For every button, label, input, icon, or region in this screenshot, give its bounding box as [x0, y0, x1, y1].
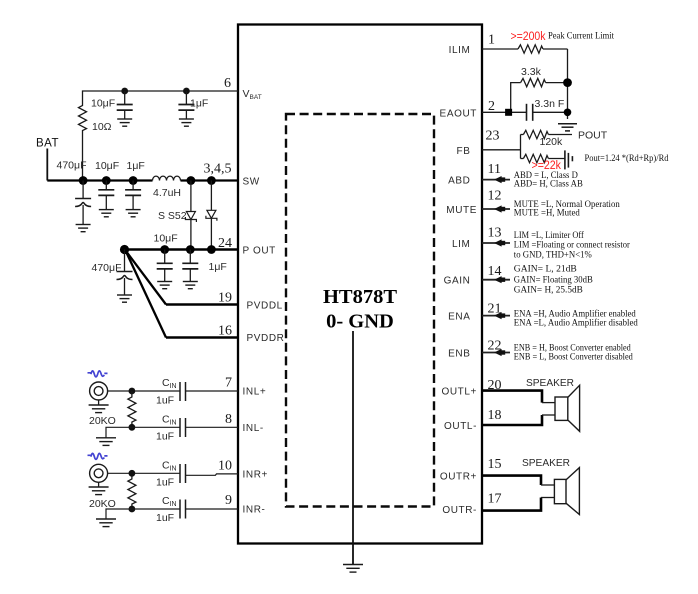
wire GND from IC center — [352, 331, 354, 564]
junction dot EAOUT rail — [564, 109, 572, 117]
wire jack L to INL+ — [108, 390, 180, 392]
wire BAT stub — [46, 149, 48, 181]
wire diagonal POUT to PVDDL — [126, 251, 167, 305]
wire OUTR+ to speaker — [541, 484, 554, 486]
svg-text:ABD: ABD — [448, 175, 470, 186]
wire OUTR- to speaker — [541, 497, 554, 499]
svg-text:LIM =Floating or connect resis: LIM =Floating or connect resistor — [514, 241, 631, 251]
junction square EAOUT — [505, 109, 512, 116]
svg-text:GAIN: GAIN — [444, 275, 471, 286]
resistor 3.3k — [521, 78, 546, 86]
svg-text:1uF: 1uF — [156, 512, 174, 524]
junction dot 10uF BAT — [102, 176, 111, 185]
wire pin 13 stub — [482, 242, 510, 244]
ground (470uF BAT) — [76, 225, 91, 232]
ground (INR-) — [96, 519, 116, 527]
svg-text:1uF: 1uF — [156, 431, 174, 443]
arrow pin 13 — [494, 239, 505, 246]
IC body HT878T — [238, 25, 482, 544]
resistor 120k — [521, 134, 524, 136]
junction dot 1uF on VBAT rail — [183, 88, 190, 95]
wire right rail vertical — [567, 49, 569, 119]
svg-text:12: 12 — [488, 189, 502, 204]
junction dot 10uF POUT — [160, 245, 169, 254]
svg-text:1μF: 1μF — [127, 160, 145, 172]
capacitor 1uF (VBAT rail) — [185, 91, 187, 105]
capacitor 3.3nF — [526, 104, 528, 121]
wire INR- line — [132, 508, 180, 510]
svg-text:1uF: 1uF — [156, 477, 174, 489]
resistor 20K L — [131, 391, 133, 395]
wire FB bracket vertical — [520, 135, 522, 159]
svg-text:ENB: ENB — [448, 348, 470, 359]
svg-text:PVDDR: PVDDR — [247, 333, 285, 344]
junction dot 470uF BAT — [79, 176, 88, 185]
wire inductor to SW pin — [181, 179, 239, 181]
inductor 4.7uH — [153, 176, 181, 180]
svg-text:17: 17 — [488, 492, 502, 507]
svg-text:MUTE =H, Muted: MUTE =H, Muted — [514, 209, 580, 219]
svg-text:10μF: 10μF — [91, 98, 115, 110]
svg-text:ENB = L, Boost Converter disab: ENB = L, Boost Converter disabled — [514, 352, 633, 362]
resistor 10 ohm — [79, 103, 87, 133]
svg-text:>=200k: >=200k — [511, 31, 546, 43]
svg-text:ENA =L, Audio Amplifier disabl: ENA =L, Audio Amplifier disabled — [514, 317, 638, 328]
svg-text:11: 11 — [488, 162, 501, 177]
svg-text:LIM =L, Limiter Off: LIM =L, Limiter Off — [514, 230, 585, 241]
ground (1uF BAT) — [126, 210, 141, 217]
svg-text:EAOUT: EAOUT — [440, 109, 477, 120]
wire pin2 to cap — [482, 111, 526, 113]
junction dot 1uF POUT — [186, 245, 195, 254]
junction dot 24 — [207, 245, 216, 254]
svg-text:6: 6 — [224, 76, 231, 91]
svg-text:3,4,5: 3,4,5 — [204, 162, 232, 177]
wire VBAT rail — [83, 91, 239, 103]
svg-text:OUTL+: OUTL+ — [441, 387, 477, 398]
wire OUTL+ to speaker — [542, 402, 555, 404]
svg-text:INR+: INR+ — [243, 470, 268, 481]
wire OUTR+ thick — [482, 476, 541, 485]
wire diagonal POUT to PVDDR — [126, 251, 167, 338]
svg-text:GAIN= L, 21dB: GAIN= L, 21dB — [514, 264, 577, 274]
ground (1uF POUT) — [183, 282, 198, 289]
arrow pin 21 — [494, 312, 505, 319]
arrow pin 11 — [494, 176, 505, 183]
wire pin 21 stub — [482, 315, 510, 317]
svg-text:1μF: 1μF — [190, 98, 208, 110]
ground (470uF POUT) — [117, 295, 132, 302]
svg-text:20KO: 20KO — [89, 415, 116, 427]
inner dashed boundary — [286, 114, 434, 507]
wire OUTL+ thick — [482, 391, 542, 403]
capacitor 10uF (BAT) — [105, 181, 107, 190]
audio source icon R (blue sine) — [88, 453, 108, 459]
svg-text:MUTE: MUTE — [446, 205, 477, 216]
svg-text:120k: 120k — [540, 136, 564, 148]
ground (10uF BAT) — [99, 210, 114, 217]
svg-text:10μF: 10μF — [95, 160, 119, 172]
wire INL- line — [132, 426, 180, 428]
svg-text:23: 23 — [486, 128, 500, 143]
capacitor CIN INR- — [179, 500, 181, 519]
junction dot 1uF BAT — [129, 176, 138, 185]
svg-text:INL-: INL- — [243, 423, 264, 434]
wire cap to rail — [533, 111, 568, 113]
capacitor 470uF (BAT, polarized) — [82, 181, 84, 199]
svg-text:16: 16 — [218, 324, 232, 339]
svg-text:1uF: 1uF — [156, 395, 174, 407]
capacitor 470uF (POUT, polarized) — [124, 250, 126, 272]
svg-text:GAIN= H, 25.5dB: GAIN= H, 25.5dB — [514, 285, 583, 295]
junction dot INL- — [129, 424, 136, 431]
wire 22k to cap — [548, 158, 565, 160]
wire FB to bracket — [482, 149, 521, 151]
svg-text:18: 18 — [488, 408, 502, 423]
ground (INL-) — [96, 438, 116, 446]
svg-text:9: 9 — [225, 493, 232, 508]
svg-text:ENA: ENA — [448, 311, 470, 322]
svg-text:INL+: INL+ — [243, 387, 267, 398]
wire OUTR- thick — [482, 498, 541, 511]
svg-text:HT878T: HT878T — [323, 286, 397, 308]
wire pin1 to resistor — [482, 48, 518, 50]
diode D1 SS52 — [190, 181, 192, 212]
wire 3.3k left leg — [511, 83, 521, 113]
svg-text:INR-: INR- — [243, 505, 266, 516]
wire CIN to pin 7 — [186, 390, 239, 392]
svg-text:SPEAKER: SPEAKER — [526, 377, 574, 389]
svg-text:Pout=1.24 *(Rd+Rp)/Rd: Pout=1.24 *(Rd+Rp)/Rd — [585, 153, 669, 164]
svg-text:19: 19 — [218, 291, 232, 306]
svg-text:POUT: POUT — [578, 130, 608, 142]
svg-text:1: 1 — [488, 33, 495, 48]
svg-text:14: 14 — [488, 264, 502, 279]
diode D2 SS52 — [210, 181, 212, 211]
wire OUTL- to speaker — [542, 414, 555, 416]
wire 3.3k right leg — [546, 82, 568, 84]
wire resistor to BAT line — [82, 133, 84, 181]
input jack L — [90, 382, 108, 400]
svg-text:3.3n F: 3.3n F — [535, 98, 565, 110]
svg-text:0- GND: 0- GND — [326, 311, 394, 333]
junction dot POUT main — [120, 245, 129, 254]
junction dot diode D1 top — [187, 176, 196, 185]
wire pin 11 stub — [482, 179, 510, 181]
svg-text:8: 8 — [225, 412, 232, 427]
ground (jack L) — [98, 400, 100, 405]
capacitor Rd-Rp net — [564, 150, 566, 169]
resistor >=200k — [518, 45, 543, 53]
ground (EAOUT rail) — [558, 124, 577, 131]
junction dot diode D2 top — [207, 176, 216, 185]
capacitor 1uF (BAT) — [132, 181, 134, 190]
capacitor CIN INL- — [179, 418, 181, 437]
wire pin 12 stub — [482, 208, 510, 210]
ground (jack R) — [98, 482, 100, 487]
capacitor CIN INL+ — [179, 382, 181, 401]
wire CIN to pin 9 — [186, 508, 239, 510]
wire jack R to INR+ — [108, 472, 180, 474]
arrow pin 12 — [494, 205, 505, 212]
wire 120k to POUT — [548, 134, 572, 136]
wire BAT line to inductor — [47, 179, 152, 181]
ground (1uF VBAT) — [179, 119, 194, 126]
svg-text:PVDDL: PVDDL — [247, 301, 283, 312]
junction dot INR- — [129, 506, 136, 513]
svg-text:to GND, THD+N<1%: to GND, THD+N<1% — [514, 250, 592, 260]
capacitor 1uF (POUT) — [189, 250, 191, 264]
junction dot 3.3k rail — [563, 78, 572, 87]
svg-text:15: 15 — [488, 457, 502, 472]
resistor 20K R — [128, 477, 136, 507]
wire pin 14 stub — [482, 279, 510, 281]
svg-text:ABD= H, Class AB: ABD= H, Class AB — [514, 180, 583, 190]
capacitor 10uF (VBAT rail) — [124, 91, 126, 105]
junction dot INL+ — [129, 388, 136, 395]
svg-text:Peak Current Limit: Peak Current Limit — [548, 32, 614, 42]
svg-text:S S52: S S52 — [158, 210, 187, 222]
wire OUTL- thick — [482, 415, 542, 425]
svg-text:SPEAKER: SPEAKER — [522, 457, 570, 469]
audio source icon L (blue sine) — [88, 371, 108, 377]
ground (10uF VBAT) — [117, 119, 132, 126]
wire PVDDL — [166, 303, 238, 305]
wire INL- to ground — [106, 427, 132, 438]
speaker R — [554, 468, 579, 515]
ground (10uF POUT) — [157, 282, 172, 289]
capacitor CIN INR+ — [179, 464, 181, 483]
svg-text:OUTR+: OUTR+ — [440, 471, 477, 482]
svg-text:3.3k: 3.3k — [521, 66, 542, 78]
arrow pin 14 — [494, 276, 505, 283]
capacitor 10uF (POUT) — [164, 250, 166, 264]
speaker L — [555, 385, 580, 431]
wire CIN to pin 8 — [186, 426, 239, 428]
svg-text:10: 10 — [218, 459, 232, 474]
wire PVDDR — [166, 336, 238, 338]
svg-text:20KO: 20KO — [89, 498, 116, 510]
svg-text:GAIN= Floating 30dB: GAIN= Floating 30dB — [514, 275, 593, 285]
arrow pin 22 — [494, 349, 505, 356]
svg-text:OUTL-: OUTL- — [444, 421, 477, 432]
svg-text:ILIM: ILIM — [449, 45, 471, 56]
svg-text:10μF: 10μF — [154, 233, 178, 245]
junction dot 10uF on VBAT rail — [121, 88, 128, 95]
svg-text:13: 13 — [488, 226, 502, 241]
wire resistor to right rail — [543, 48, 568, 50]
svg-text:LIM: LIM — [452, 239, 470, 250]
wire INR- to ground — [106, 509, 132, 519]
svg-text:10Ω: 10Ω — [92, 121, 112, 133]
svg-text:SW: SW — [243, 177, 260, 188]
svg-text:1μF: 1μF — [209, 261, 227, 273]
wire POUT line — [125, 248, 239, 250]
svg-text:470μF: 470μF — [57, 160, 87, 172]
svg-text:BAT: BAT — [36, 138, 59, 150]
svg-text:7: 7 — [225, 376, 232, 391]
svg-text:4.7uH: 4.7uH — [153, 187, 181, 199]
svg-text:OUTR-: OUTR- — [442, 505, 477, 516]
ground (IC GND) — [343, 565, 363, 573]
junction dot INR+ — [129, 470, 136, 477]
resistor >=22k — [521, 158, 524, 160]
wire CIN to pin 10 — [186, 474, 239, 475]
svg-text:FB: FB — [457, 146, 471, 157]
input jack R — [90, 464, 108, 482]
wire pin 22 stub — [482, 352, 510, 354]
svg-text:P OUT: P OUT — [243, 246, 276, 257]
